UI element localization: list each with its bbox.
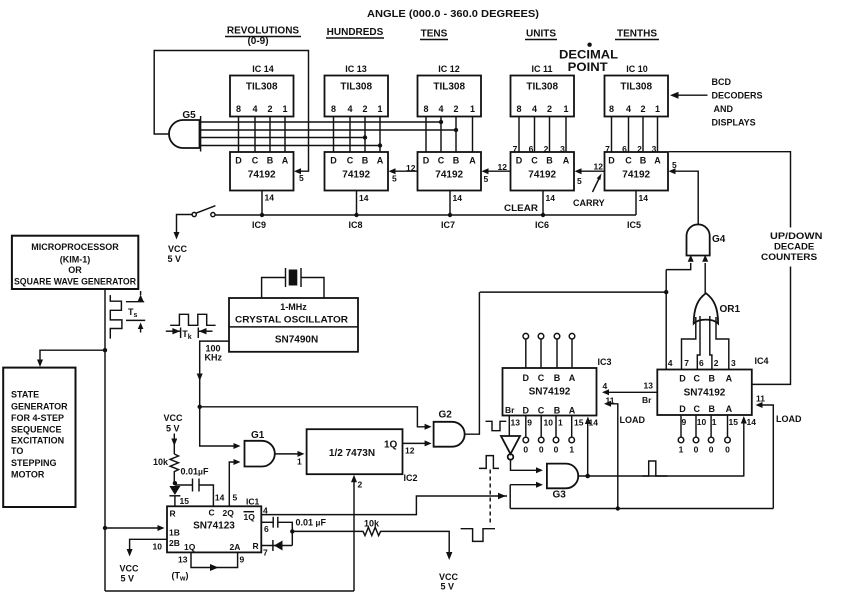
svg-text:R: R [170, 509, 176, 519]
svg-text:B: B [554, 406, 561, 416]
svg-text:4: 4 [532, 104, 537, 114]
svg-text:TENTHS: TENTHS [617, 29, 657, 40]
svg-text:8: 8 [236, 104, 241, 114]
svg-text:LOAD: LOAD [776, 414, 802, 424]
svg-text:14: 14 [359, 193, 369, 203]
wire IC13 pins to 74192 (IC8) [334, 117, 381, 153]
svg-text:0: 0 [554, 445, 559, 455]
svg-text:C: C [538, 373, 545, 383]
svg-text:6: 6 [264, 524, 269, 534]
box microprocessor KIM-1 [12, 236, 138, 289]
label REVOLUTIONS (0-9) [225, 26, 301, 48]
svg-text:TIL308: TIL308 [246, 82, 278, 93]
svg-text:4: 4 [347, 104, 352, 114]
svg-text:4: 4 [438, 104, 443, 114]
svg-text:5: 5 [299, 173, 304, 183]
counter 74192 (IC7) [418, 152, 482, 191]
svg-text:10: 10 [697, 417, 707, 427]
display TIL308 (IC11) [511, 64, 575, 117]
svg-text:1: 1 [297, 457, 302, 467]
svg-text:14: 14 [265, 193, 275, 203]
svg-text:2A: 2A [230, 542, 241, 552]
crystal Y1 (1 MHz) [262, 268, 324, 298]
diode CR1 to pin15 R [169, 486, 189, 506]
and-gate G2 [434, 410, 465, 447]
box crystal oscillator SN7490N (1-MHz) [229, 298, 358, 352]
svg-text:OR: OR [68, 265, 82, 275]
svg-text:EXCITATION: EXCITATION [11, 436, 64, 446]
svg-text:SN74123: SN74123 [193, 521, 235, 532]
svg-text:C: C [694, 404, 701, 414]
svg-text:UNITS: UNITS [526, 29, 556, 40]
svg-text:MICROPROCESSOR: MICROPROCESSOR [31, 242, 119, 252]
svg-text:8: 8 [423, 104, 428, 114]
inverter I1 [501, 436, 520, 460]
svg-text:15: 15 [180, 496, 190, 506]
wire OR1 output to G4 right input [702, 255, 708, 294]
svg-text:IC4: IC4 [755, 356, 769, 366]
svg-text:5: 5 [577, 176, 582, 186]
title ANGLE (000.0 - 360.0 DEGREES) [367, 9, 539, 20]
svg-text:IC2: IC2 [404, 473, 418, 483]
svg-text:BCD: BCD [712, 77, 732, 87]
svg-text:2: 2 [362, 104, 367, 114]
svg-text:2: 2 [640, 104, 645, 114]
wire inverter output to G3 upper input [511, 460, 544, 474]
wire IC3 data input terminals (open circles) [523, 333, 575, 368]
wire IC5 pin14 to clear bus [636, 191, 648, 216]
svg-text:IC 13: IC 13 [345, 64, 367, 74]
svg-text:9: 9 [527, 418, 532, 428]
svg-text:13: 13 [644, 381, 654, 391]
svg-text:6: 6 [699, 358, 704, 368]
svg-text:A: A [469, 156, 476, 166]
svg-text:DECADE: DECADE [774, 242, 814, 252]
svg-text:14: 14 [639, 193, 649, 203]
wire microprocessor output main vertical [103, 289, 107, 591]
svg-text:7: 7 [263, 548, 268, 558]
svg-text:2: 2 [267, 104, 272, 114]
svg-text:1: 1 [679, 445, 684, 455]
and-gate G4 (pointing up) [687, 224, 726, 255]
display TIL308 (IC13) [325, 64, 389, 117]
wire IC3 pin13 borrow to inverter [508, 416, 510, 437]
svg-text:IC8: IC8 [349, 220, 363, 230]
wire SN74123 2Q to G1 lower input [229, 459, 240, 506]
label UNITS [525, 29, 557, 40]
svg-text:5 V: 5 V [166, 424, 180, 434]
wire IC4 pin4 vertical [666, 270, 673, 370]
svg-text:12: 12 [498, 162, 508, 172]
wire IC4 pinA3 to OR1 input [716, 317, 736, 370]
svg-text:15: 15 [729, 417, 739, 427]
svg-text:B: B [546, 156, 553, 166]
svg-text:74192: 74192 [528, 170, 556, 181]
wire 1Q-bar pin4 to G3 region [261, 493, 507, 516]
svg-text:R: R [253, 541, 259, 551]
svg-text:B: B [362, 156, 369, 166]
label BCD DECODERS AND DISPLAYS with arrow [670, 77, 763, 128]
wire G1 output to 7473N pin1 [275, 451, 305, 467]
svg-text:5 V: 5 V [441, 582, 455, 592]
and-gate G5 (4-input, pointing left) [169, 110, 201, 152]
wire carry IC6 pin12 to IC7 pin5 [482, 162, 511, 184]
svg-text:VCC: VCC [120, 564, 140, 574]
svg-text:14: 14 [453, 193, 463, 203]
svg-text:CLEAR: CLEAR [504, 203, 539, 213]
wire G4 left input from node A [666, 255, 694, 270]
svg-text:POINT: POINT [568, 60, 609, 74]
svg-text:G4: G4 [712, 234, 726, 245]
svg-text:B: B [708, 374, 715, 384]
svg-text:15: 15 [574, 418, 584, 428]
wire 1Q pin13 to 2A pin9 feedback [172, 552, 245, 582]
label CARRY with arrow [573, 174, 605, 209]
svg-text:A: A [569, 406, 576, 416]
svg-text:IC 12: IC 12 [438, 64, 460, 74]
svg-text:1/2 7473N: 1/2 7473N [329, 448, 375, 459]
svg-text:5 V: 5 V [168, 254, 182, 264]
svg-text:7: 7 [684, 358, 689, 368]
svg-text:G3: G3 [553, 490, 567, 501]
display TIL308 (IC10) [605, 64, 669, 117]
svg-text:74192: 74192 [342, 170, 370, 181]
diode CR2 on pin7 R [261, 531, 292, 557]
svg-text:(KIM-1): (KIM-1) [60, 255, 91, 265]
wire clear bus [215, 203, 636, 215]
svg-text:74192: 74192 [622, 170, 650, 181]
svg-text:10: 10 [544, 418, 554, 428]
svg-text:2: 2 [547, 104, 552, 114]
svg-text:COUNTERS: COUNTERS [761, 252, 817, 262]
svg-text:A: A [726, 404, 733, 414]
wire G3 output to IC3/IC4 pin14 clear [578, 416, 747, 478]
svg-text:D: D [608, 156, 615, 166]
waveform Ts (square wave, vertical) [110, 291, 145, 339]
svg-text:2B: 2B [169, 538, 180, 548]
svg-text:A: A [726, 374, 733, 384]
one-shot U1 SN74123 (IC1) [167, 497, 261, 553]
switch S1 (clear) [192, 206, 215, 217]
svg-text:4: 4 [263, 506, 268, 516]
svg-text:TENS: TENS [421, 29, 448, 40]
svg-text:5: 5 [484, 174, 489, 184]
svg-text:D: D [330, 156, 337, 166]
wire IC4 pinB2 to OR1 input [710, 316, 719, 370]
wire IC4 pinD7 to OR1 input [682, 317, 696, 370]
svg-text:10: 10 [153, 542, 163, 552]
svg-text:0: 0 [725, 445, 730, 455]
svg-text:A: A [282, 156, 289, 166]
svg-text:D: D [679, 374, 686, 384]
svg-text:A: A [377, 156, 384, 166]
node RC junction [290, 529, 294, 533]
node A junction (G2 output to G4/IC4 pin4) [480, 290, 669, 294]
svg-text:REVOLUTIONS: REVOLUTIONS [227, 26, 300, 37]
svg-text:TIL308: TIL308 [340, 82, 372, 93]
wire IC4 pinC6 to OR1 input [697, 316, 704, 370]
svg-text:2: 2 [453, 104, 458, 114]
svg-text:IC 14: IC 14 [252, 64, 274, 74]
svg-text:74192: 74192 [435, 170, 463, 181]
svg-text:C: C [438, 156, 445, 166]
node IC7 label [441, 220, 455, 230]
svg-text:SN7490N: SN7490N [275, 335, 318, 346]
svg-text:Br: Br [505, 405, 515, 415]
svg-text:1: 1 [282, 104, 287, 114]
svg-text:AND: AND [714, 104, 734, 114]
counter U3 SN74192 (IC3) [503, 357, 612, 416]
wire IC11 pins to 74192 (IC6), pin numbers 7 6 2 3 [513, 117, 566, 155]
counter 74192 (IC9) [230, 152, 294, 191]
wire IC10 pins to 74192 (IC5), pin numbers 7 6 2 3 [605, 117, 657, 155]
wire IC12 pins to 74192 (IC7) [426, 117, 473, 153]
label TENTHS [615, 29, 659, 40]
svg-text:VCC: VCC [168, 244, 188, 254]
svg-text:1: 1 [558, 418, 563, 428]
svg-text:1: 1 [712, 417, 717, 427]
svg-text:DECODERS: DECODERS [712, 91, 763, 101]
wire IC7 pin14 to clear bus [448, 191, 462, 218]
svg-text:0: 0 [539, 445, 544, 455]
svg-text:D: D [235, 156, 242, 166]
svg-text:13: 13 [511, 418, 521, 428]
node IC5 label [627, 220, 641, 230]
resistor R1 10k [153, 454, 179, 483]
svg-text:B: B [640, 156, 647, 166]
svg-text:1: 1 [655, 104, 660, 114]
svg-text:10k: 10k [364, 519, 380, 529]
svg-text:CRYSTAL OSCILLATOR: CRYSTAL OSCILLATOR [235, 315, 349, 325]
svg-text:8: 8 [516, 104, 521, 114]
bus wire line3 (G5 input to IC13 pin2) [201, 135, 368, 139]
svg-text:TIL308: TIL308 [433, 82, 465, 93]
svg-text:8: 8 [609, 104, 614, 114]
waveform pulse (positive) at G3 input [479, 456, 499, 469]
svg-text:HUNDREDS: HUNDREDS [327, 27, 384, 38]
svg-text:KHz: KHz [205, 353, 223, 363]
svg-text:1: 1 [470, 104, 475, 114]
waveform pulse (positive) on clear wire [642, 461, 667, 476]
wire load line to IC4 pin11 [510, 506, 773, 510]
wire carry IC5 pin12 to IC6 pin5 [575, 162, 605, 187]
svg-text:2: 2 [358, 480, 363, 490]
wire IC8 pin14 to clear bus [354, 191, 368, 218]
svg-text:5: 5 [233, 493, 238, 503]
wire IC3 bottom preset pins 9,10,1,15 with levels 0 0 0 1 [511, 416, 599, 455]
wire IC4 bottom preset pins 9,10,1,15 with levels 1 0 0 0 [678, 415, 756, 455]
resistor R2 10k to VCC [292, 519, 458, 592]
svg-text:IC 10: IC 10 [626, 64, 648, 74]
display TIL308 (IC12) [418, 64, 482, 117]
svg-text:C: C [625, 156, 632, 166]
counter 74192 (IC8) [325, 152, 389, 191]
wire 7473N pin2 clock from bottom [351, 475, 363, 591]
svg-text:TIL308: TIL308 [620, 82, 652, 93]
svg-text:1B: 1B [169, 528, 180, 538]
display U5 TIL308 (IC14) [230, 64, 294, 117]
svg-text:B: B [267, 156, 274, 166]
wire IC9 pin14 to clear bus [260, 191, 274, 218]
wire IC4 pin11 load [756, 394, 802, 509]
power VCC 5V above 10k R1 [164, 413, 184, 454]
svg-text:14: 14 [546, 193, 556, 203]
svg-text:1: 1 [377, 104, 382, 114]
svg-text:D: D [423, 156, 430, 166]
svg-text:4: 4 [603, 381, 608, 391]
svg-text:8: 8 [331, 104, 336, 114]
svg-text:C: C [347, 156, 354, 166]
svg-text:IC3: IC3 [598, 357, 612, 367]
svg-text:4: 4 [668, 358, 673, 368]
label HUNDREDS [326, 27, 384, 38]
capacitor C2 0.01uF on pin6 [261, 517, 326, 534]
node IC6 label [535, 220, 549, 230]
svg-text:4: 4 [626, 104, 631, 114]
node IC8 label [349, 220, 363, 230]
svg-text:SEQUENCE: SEQUENCE [11, 425, 62, 435]
wire IC6 pin14 to clear bus [541, 191, 555, 218]
svg-text:OR1: OR1 [720, 304, 741, 315]
wire top rail to IC4 right side (count-up chain) [669, 152, 791, 385]
and-gate G1 [245, 430, 275, 467]
svg-text:D: D [523, 373, 530, 383]
wire 7473N 1Q pin12 to G2 lower input [403, 440, 432, 455]
svg-text:11: 11 [756, 394, 765, 404]
svg-text:SN74192: SN74192 [684, 388, 726, 399]
wire branch to state generator [37, 350, 105, 367]
svg-text:IC7: IC7 [441, 220, 455, 230]
svg-text:13: 13 [178, 555, 188, 565]
svg-text:C: C [209, 508, 215, 518]
svg-text:5 V: 5 V [121, 574, 135, 584]
svg-text:(0-9): (0-9) [247, 36, 268, 47]
bus wire line4 (G5 input to IC13 pin1) [201, 143, 383, 147]
wire G2 output to node A [465, 292, 480, 434]
svg-text:Br: Br [642, 395, 652, 405]
svg-text:2: 2 [714, 358, 719, 368]
flip-flop U2 1/2 7473N (IC2) [307, 429, 418, 483]
svg-text:C: C [538, 406, 545, 416]
wire G4 output to IC5 pin5 [669, 160, 699, 225]
svg-text:SN74192: SN74192 [529, 387, 571, 398]
wire timing alignment (dashed) [489, 470, 491, 526]
wire 100 KHz output to G1 [197, 341, 241, 449]
svg-text:TO: TO [11, 446, 23, 456]
wire G5 output loop to IC9 pin 5 [154, 51, 308, 184]
svg-text:GENERATOR: GENERATOR [11, 402, 68, 412]
svg-text:9: 9 [682, 417, 687, 427]
svg-text:1: 1 [569, 445, 574, 455]
svg-text:12: 12 [406, 163, 416, 173]
power VCC 5V to 2B pin10 [120, 539, 168, 583]
svg-text:1-MHz: 1-MHz [280, 302, 307, 312]
svg-text:10k: 10k [153, 457, 169, 467]
svg-text:MOTOR: MOTOR [11, 470, 45, 480]
svg-text:STATE: STATE [11, 390, 39, 400]
svg-text:A: A [569, 373, 576, 383]
svg-text:UP/DOWN: UP/DOWN [770, 231, 822, 241]
svg-text:C: C [694, 374, 701, 384]
svg-text:IC6: IC6 [535, 220, 549, 230]
wire branch 100KHz to G2 top input [200, 407, 432, 430]
svg-text:STEPPING: STEPPING [11, 458, 57, 468]
decimal point marker [559, 43, 618, 75]
svg-text:D: D [679, 404, 686, 414]
svg-text:D: D [523, 406, 530, 416]
and-gate G3 [547, 464, 578, 501]
wire IC14 pins to 74192 (IC9) [239, 117, 286, 153]
svg-text:1Q: 1Q [184, 542, 196, 552]
svg-text:TIL308: TIL308 [526, 82, 558, 93]
box state generator for stepping motor [3, 368, 75, 507]
svg-text:IC9: IC9 [252, 220, 266, 230]
svg-text:D: D [516, 156, 523, 166]
svg-text:A: A [654, 156, 661, 166]
svg-text:VCC: VCC [164, 413, 184, 423]
svg-text:CARRY: CARRY [573, 198, 605, 208]
svg-text:0: 0 [709, 445, 714, 455]
svg-text:C: C [252, 156, 259, 166]
svg-text:4: 4 [252, 104, 257, 114]
label TENS [420, 29, 448, 40]
svg-text:3: 3 [731, 358, 736, 368]
svg-text:VCC: VCC [439, 572, 459, 582]
svg-text:0.01μF: 0.01μF [181, 467, 209, 477]
svg-text:FOR 4-STEP: FOR 4-STEP [11, 413, 64, 423]
svg-text:SQUARE WAVE GENERATOR: SQUARE WAVE GENERATOR [14, 277, 136, 287]
svg-text:11: 11 [606, 396, 615, 406]
or-gate OR1 (pointing up) [694, 293, 741, 323]
svg-text:IC 11: IC 11 [531, 64, 552, 74]
capacitor C1 0.01uF [175, 467, 225, 507]
waveform pulse (negative) at one-shot output [461, 529, 495, 542]
svg-text:0.01 μF: 0.01 μF [296, 518, 327, 528]
svg-text:12: 12 [405, 446, 415, 456]
svg-text:1: 1 [563, 104, 568, 114]
svg-text:LOAD: LOAD [620, 415, 646, 425]
bus wire line1 (G5 input to IC12 pin4) [201, 120, 444, 124]
svg-text:9: 9 [240, 555, 245, 565]
svg-text:5: 5 [672, 160, 677, 170]
counter U4 SN74192 (IC4) [657, 356, 768, 415]
wire carry IC7 pin12 to IC8 pin5 [389, 163, 418, 184]
svg-text:B: B [453, 156, 460, 166]
wire IC4 pin13 borrow to IC3 pin4 [602, 381, 657, 406]
svg-text:A: A [563, 156, 570, 166]
svg-text:IC5: IC5 [627, 220, 641, 230]
power VCC 5V at switch [168, 215, 193, 265]
label UP/DOWN DECADE COUNTERS [761, 231, 822, 262]
svg-text:C: C [531, 156, 538, 166]
svg-text:0: 0 [523, 445, 528, 455]
svg-text:G1: G1 [251, 430, 265, 441]
svg-text:2Q: 2Q [223, 508, 235, 518]
svg-text:G2: G2 [439, 410, 453, 421]
wire IC3 pin11 load [604, 396, 645, 509]
svg-text:ANGLE (000.0 - 360.0 DEGREES): ANGLE (000.0 - 360.0 DEGREES) [367, 9, 539, 20]
svg-text:14: 14 [215, 493, 225, 503]
wire bottom run to 7473N pin2 [105, 590, 354, 592]
node R/C junction at SN74123 pin15 [173, 481, 177, 485]
svg-text:1Q: 1Q [384, 440, 398, 451]
waveform pulse (negative) at borrow [486, 421, 507, 430]
wire G3 lower input [510, 482, 543, 509]
bus wire line2 (G5 input to IC12 pin2) [201, 128, 459, 132]
svg-text:12: 12 [594, 162, 604, 172]
svg-text:14: 14 [747, 417, 757, 427]
wire 1B input from microprocessor line [105, 525, 165, 531]
